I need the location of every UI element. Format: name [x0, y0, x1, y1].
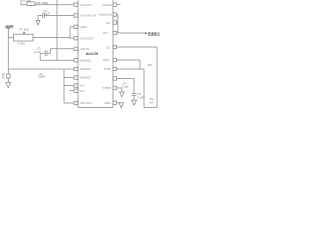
wire row5	[50, 48, 74, 50]
svg-text:AIN0: AIN0	[80, 25, 87, 29]
svg-text:CHA OUT: CHA OUT	[80, 36, 94, 40]
wire junction vertical x70	[69, 27, 71, 38]
svg-text:0.1µF: 0.1µF	[122, 85, 129, 88]
wire rail to ground	[7, 78, 9, 82]
wire +3.3V rail	[7, 29, 9, 74]
component R6 on rail	[7, 74, 10, 78]
wire row11	[64, 102, 74, 104]
svg-text:DO8: DO8	[104, 67, 111, 71]
ground arrow E	[119, 103, 124, 108]
pin box R11	[113, 101, 117, 104]
wire pot to junction x70	[33, 37, 70, 39]
pin box L3	[74, 25, 78, 28]
wire R7 to +5V rail	[117, 69, 157, 108]
pin box R2	[113, 13, 117, 16]
wire row9 stub	[64, 85, 74, 87]
svg-text:4.7µF: 4.7µF	[34, 50, 41, 54]
svg-text:HW1: HW1	[104, 101, 111, 105]
svg-text:100µF: 100µF	[38, 76, 46, 79]
pin box L11	[74, 101, 78, 104]
svg-text:CHA IN2 IN: CHA IN2 IN	[80, 14, 96, 18]
svg-text:MX OUT: MX OUT	[80, 101, 92, 105]
ground arrow B	[6, 83, 11, 88]
pin box L1	[74, 3, 78, 6]
wire C3 left lead	[40, 53, 45, 60]
label serial data output bullet	[145, 32, 147, 34]
capacitor C5 plates	[132, 94, 137, 96]
svg-text:A/D IN: A/D IN	[80, 47, 89, 51]
wire x140 down to row7	[139, 60, 141, 69]
wire row7 long y69	[9, 68, 74, 70]
svg-text:R5 10kΩ: R5 10kΩ	[37, 1, 50, 5]
pin box R6	[113, 58, 117, 61]
pin box R3	[113, 21, 117, 24]
wire vertical bus x57	[56, 0, 58, 60]
capacitor C3 plates	[45, 50, 47, 56]
ground arrow C	[120, 92, 125, 97]
svg-text:DO: DO	[103, 31, 108, 35]
wire row8	[64, 77, 74, 79]
resistor R5	[27, 2, 35, 6]
svg-text:16V: 16V	[149, 101, 154, 104]
wire R8 to C5	[117, 79, 134, 94]
pin box R1	[113, 3, 117, 6]
capacitor C1 plates	[43, 13, 45, 18]
wire left bottom bus x64	[63, 69, 65, 103]
wire R3 down to R4	[117, 23, 118, 34]
svg-text:4.7kΩ: 4.7kΩ	[18, 42, 25, 46]
svg-text:I/O9: I/O9	[103, 58, 109, 62]
wire C5 to ground	[133, 96, 135, 101]
wire R2 down to R3	[117, 15, 118, 23]
svg-text:DataOut2: DataOut2	[99, 13, 112, 17]
pin box L5	[74, 47, 78, 50]
wire R4 serial data out	[118, 32, 146, 34]
wire row4	[70, 37, 74, 39]
svg-text:10: 10	[106, 45, 110, 49]
wire R11 stub	[117, 102, 122, 104]
ground arrow A	[36, 21, 40, 26]
chip bottom edge	[78, 106, 113, 108]
wire pot left lead	[8, 37, 13, 39]
svg-text:NC: NC	[106, 21, 111, 25]
pin box R7	[113, 67, 117, 70]
svg-text:1k: 1k	[2, 76, 5, 79]
pin box R5	[113, 45, 117, 48]
pin box L10	[74, 89, 78, 92]
svg-text:0.1µF: 0.1µF	[43, 12, 50, 16]
pin box L7	[74, 67, 78, 70]
svg-text:+3.3V: +3.3V	[5, 25, 13, 29]
svg-text:STRB: STRB	[103, 86, 111, 90]
pin box L9	[74, 84, 78, 87]
potentiometer wiper mark	[23, 32, 25, 34]
wire R6 over	[117, 59, 140, 61]
pin box R4	[113, 31, 117, 34]
pin box L4	[74, 37, 78, 40]
wire top feed vertical x21	[20, 0, 22, 5]
power T-bar	[6, 28, 10, 30]
pin box R9	[113, 86, 117, 89]
op chip U1 MAX147B left edge	[77, 0, 79, 107]
pin box R8	[113, 77, 117, 80]
svg-text:NC: NC	[80, 84, 85, 88]
ground arrow D	[132, 100, 137, 105]
svg-text:MAX147B: MAX147B	[86, 51, 99, 56]
svg-text:数据输出: 数据输出	[148, 30, 160, 36]
wire R9	[117, 88, 122, 92]
wire C3 riser	[47, 49, 50, 53]
pin box L2	[74, 14, 78, 17]
wire row10 stub	[69, 90, 74, 92]
pin box L8	[74, 76, 78, 79]
svg-text:0.1µF: 0.1µF	[137, 96, 144, 99]
wire row2 to pin	[44, 15, 74, 17]
svg-text:DtaOut: DtaOut	[102, 3, 112, 7]
svg-text:MODE0: MODE0	[80, 58, 91, 62]
potentiometer R1 body	[14, 34, 34, 41]
svg-text:NC: NC	[80, 89, 85, 93]
svg-text:+5V: +5V	[147, 63, 152, 67]
wire row1 left segment	[21, 4, 27, 6]
wire R5 to bus	[117, 46, 157, 48]
wire row3	[70, 26, 74, 28]
pin box L6	[74, 59, 78, 62]
wire row2 corner	[38, 16, 43, 21]
wire R1 stub	[117, 4, 121, 6]
wire row1 to pin CH0	[35, 4, 74, 6]
svg-text:R5 1kΩ: R5 1kΩ	[23, 0, 32, 3]
wire row6 y60.3	[40, 59, 74, 61]
svg-text:MODE1: MODE1	[80, 67, 91, 71]
svg-text:R7 1kΩ: R7 1kΩ	[19, 28, 28, 32]
svg-text:CHA IN1: CHA IN1	[80, 3, 92, 7]
svg-text:MODE2: MODE2	[80, 76, 91, 80]
chip right edge	[112, 0, 114, 107]
wire +5V bus vertical	[156, 47, 158, 108]
